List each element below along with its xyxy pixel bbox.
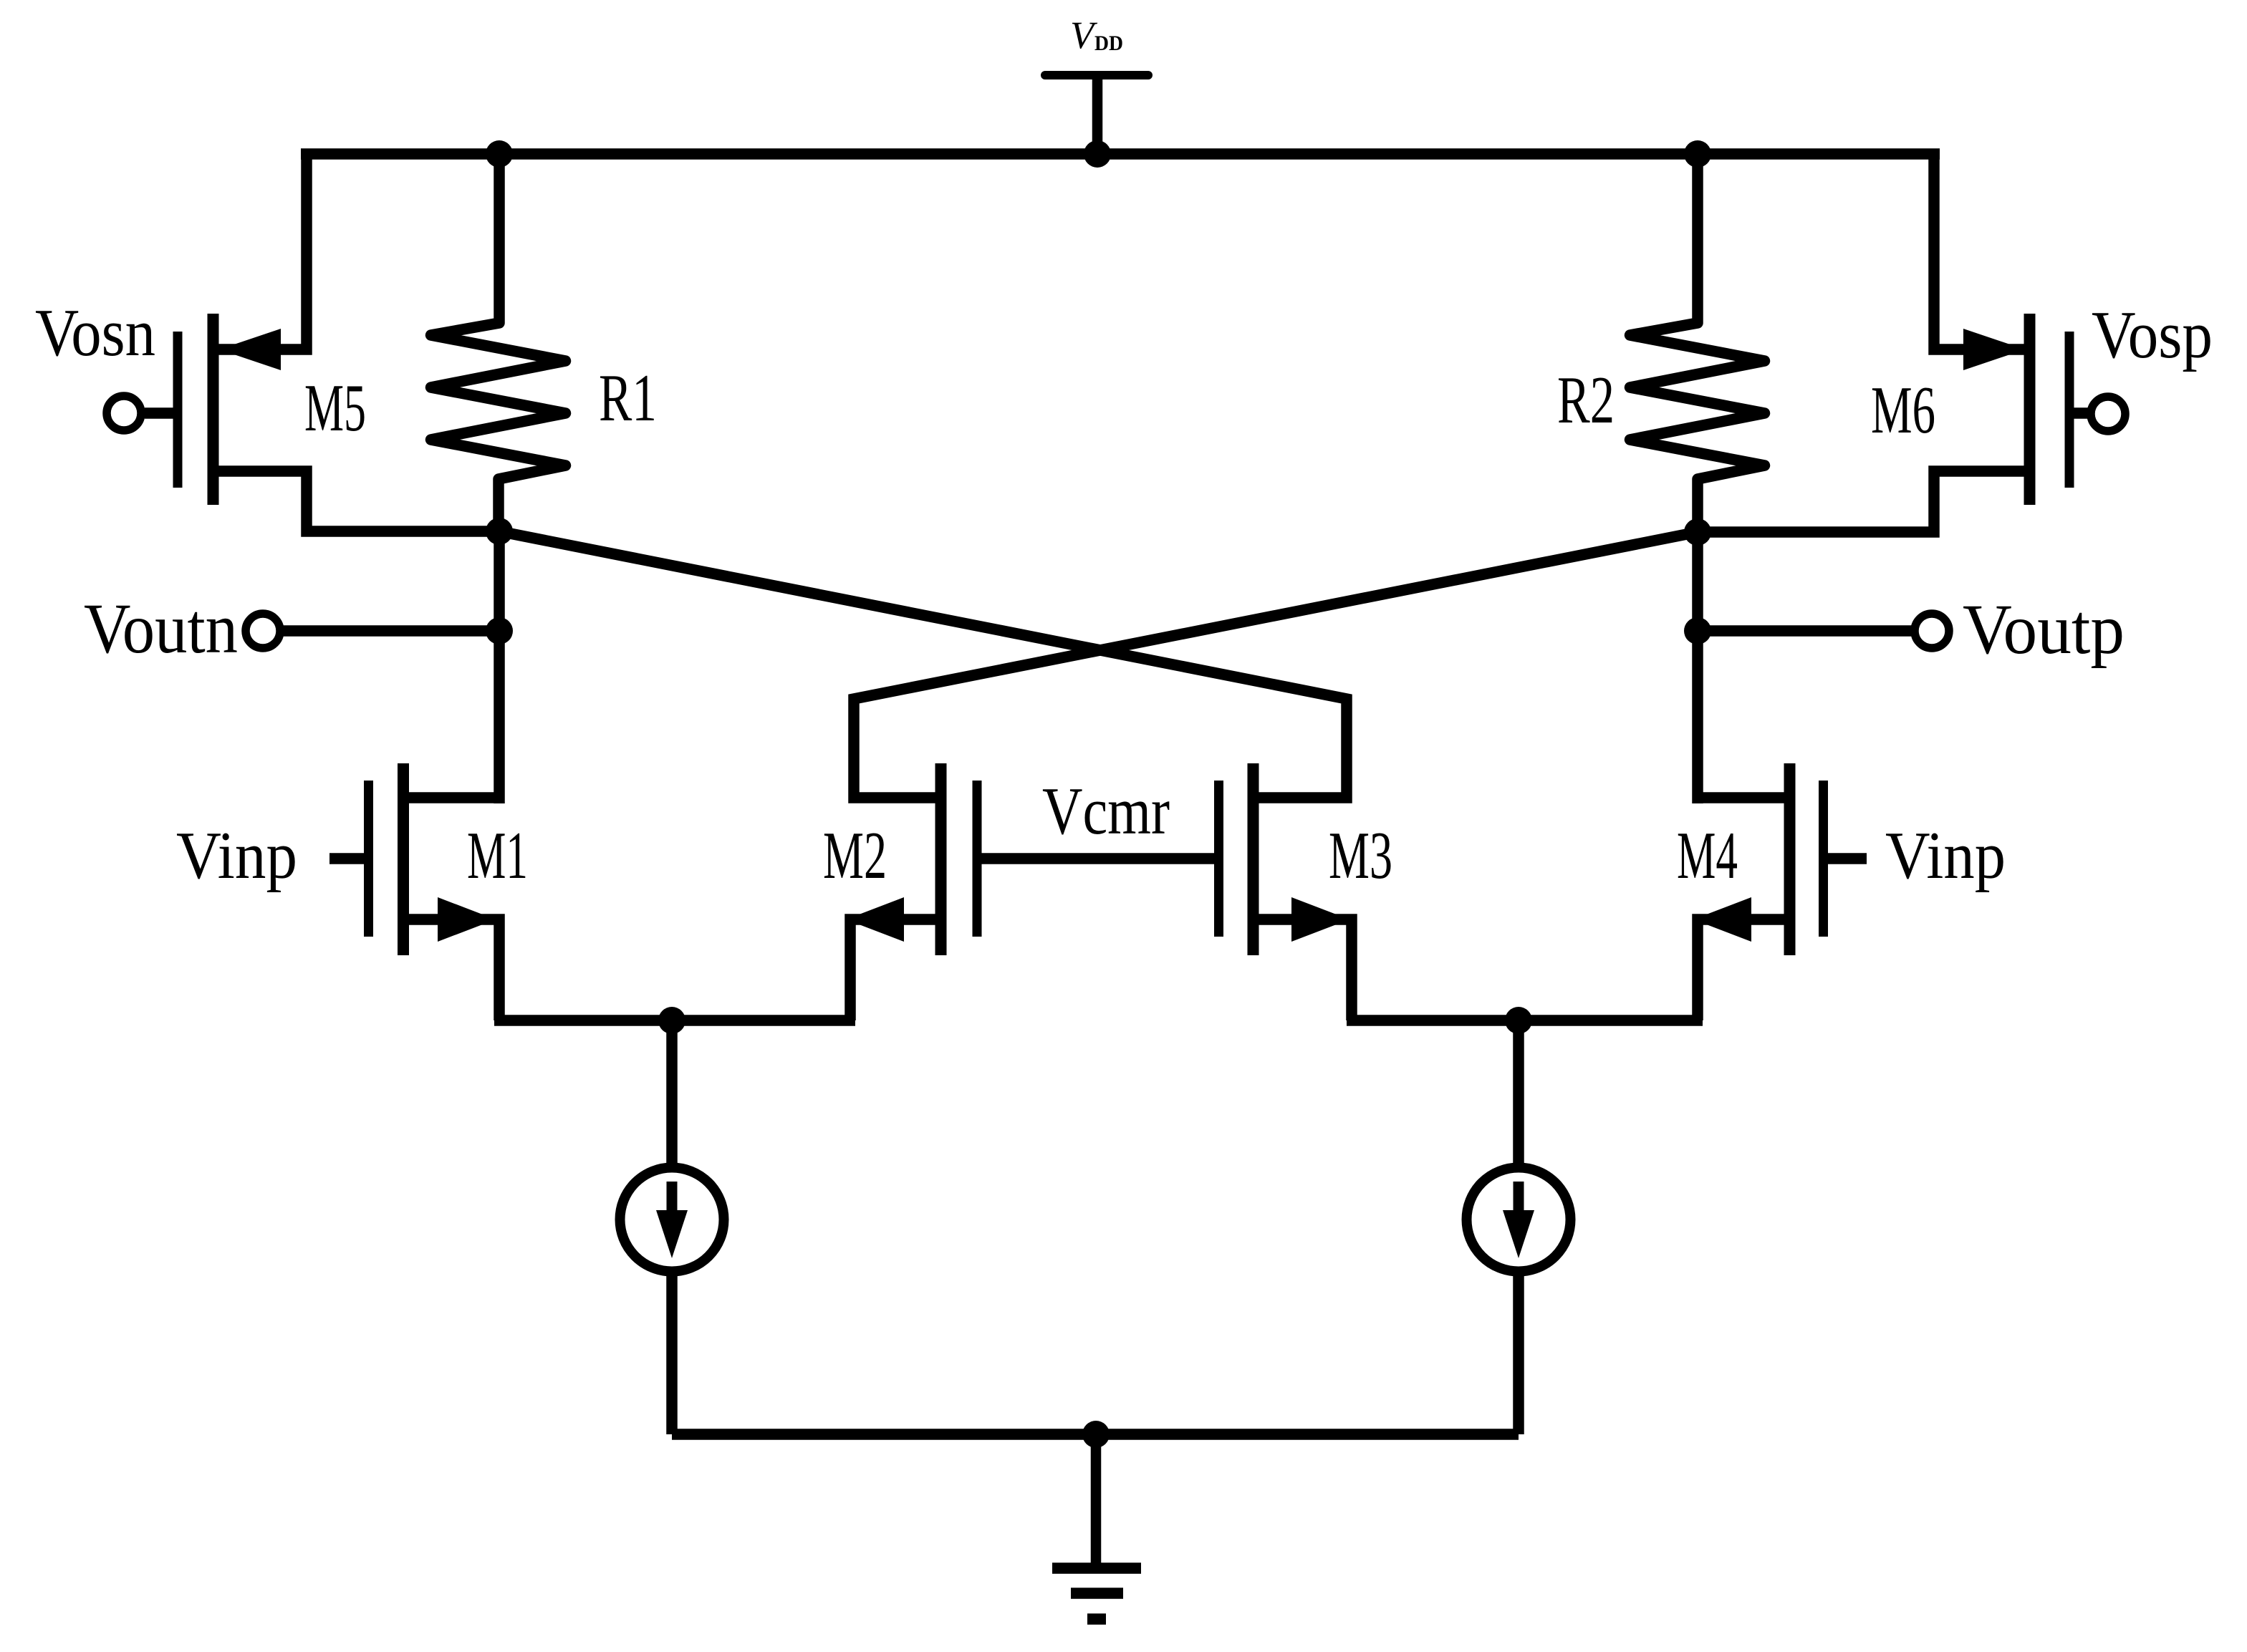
wire M5 source to rail [215, 154, 307, 349]
resistor R2 [1630, 154, 1765, 532]
current source I1 arrow head [656, 1210, 688, 1258]
ground bar 2 [1071, 1588, 1123, 1599]
wire VDD stem [1092, 75, 1103, 154]
transistor M3 gate bar [1214, 781, 1223, 937]
svg-text:M6: M6 [1871, 373, 1935, 448]
wire M1 drain lead [403, 792, 499, 803]
junction right tail [1505, 1007, 1532, 1034]
svg-text:Vcmr: Vcmr [1042, 774, 1170, 849]
wire right tail to I2 [1513, 1020, 1524, 1167]
ground bar 1 [1052, 1562, 1141, 1574]
transistor M3 channel bar [1248, 763, 1259, 955]
transistor M4 channel bar [1784, 763, 1796, 955]
ground bar 3 [1087, 1613, 1106, 1625]
wire M3 source lead [1255, 919, 1352, 1020]
svg-text:M1: M1 [467, 818, 528, 893]
current source I2 arrow head [1503, 1210, 1534, 1258]
junction Voutn [486, 617, 513, 644]
svg-text:DD: DD [1094, 32, 1123, 55]
transistor M2 source arrow [846, 897, 904, 942]
wire bottom rail [672, 1429, 1519, 1440]
wire M6 source to rail [1934, 154, 2028, 349]
wire M2 source lead [850, 919, 939, 1020]
transistor M4 source arrow [1693, 897, 1751, 942]
wire M1 gate stub [329, 853, 365, 864]
transistor M1 channel bar [398, 763, 409, 955]
terminal Voutp [1915, 614, 1949, 648]
wire I2 to bottom rail [1513, 1273, 1524, 1434]
current source I2 circle [1467, 1168, 1571, 1272]
transistor M6 gate bar [2065, 332, 2074, 488]
svg-text:Vinp: Vinp [1885, 818, 2006, 893]
node A junction [486, 518, 513, 545]
wire M6 drain to node B [1698, 471, 2028, 532]
wire Voutn lead [282, 625, 499, 637]
wire node B to M2 drain (diagonal) [854, 532, 1698, 798]
wire M5 drain to node A [215, 471, 499, 531]
transistor M3 source arrow [1291, 897, 1349, 942]
transistor M1 source arrow [438, 897, 496, 942]
svg-text:R2: R2 [1557, 363, 1615, 438]
junction rail-R2 [1684, 140, 1711, 168]
wire right tail [1347, 1015, 1703, 1026]
junction rail-R1 [486, 140, 513, 168]
wire node B down to M4 drain [1692, 532, 1703, 803]
svg-text:Vosp: Vosp [2092, 298, 2213, 372]
svg-text:Voutp: Voutp [1963, 589, 2125, 669]
transistor M2 channel bar [935, 763, 947, 955]
wire M4 gate stub [1827, 853, 1867, 864]
current source I2 arrow shaft [1514, 1182, 1524, 1213]
junction left tail [658, 1007, 685, 1034]
resistor R1 [431, 154, 566, 531]
wire left tail [494, 1015, 855, 1026]
terminal Voutn [246, 614, 280, 648]
wire I1 to bottom rail [666, 1273, 678, 1434]
transistor M6 channel bar [2024, 314, 2036, 505]
wire M4 drain lead [1698, 792, 1790, 803]
svg-text:Voutn: Voutn [84, 589, 238, 668]
junction Voutp [1684, 617, 1711, 644]
node B junction [1684, 518, 1711, 546]
current source I1 arrow shaft [667, 1182, 678, 1213]
transistor M5 gate bar [173, 332, 183, 488]
svg-text:Vinp: Vinp [176, 818, 297, 893]
wire M5 gate stub [145, 407, 175, 419]
wire M4 source lead [1698, 919, 1791, 1020]
terminal Vosp [2091, 397, 2125, 431]
junction rail-VDD [1084, 140, 1111, 168]
svg-text:M5: M5 [304, 371, 366, 445]
transistor M5 channel bar [208, 314, 219, 505]
svg-text:M2: M2 [823, 818, 887, 893]
wire M6 gate stub [2074, 407, 2089, 419]
wire ground stem [1091, 1434, 1102, 1563]
wire node A down to M1 drain [494, 531, 505, 803]
svg-text:R1: R1 [599, 361, 657, 435]
wire left tail to I1 [666, 1020, 678, 1167]
junction ground [1082, 1421, 1110, 1448]
transistor M2 gate bar [973, 781, 982, 937]
svg-text:Vosn: Vosn [35, 296, 155, 370]
wire M1 source lead [403, 919, 499, 1020]
wire top VDD rail [301, 148, 1940, 160]
wire node A to M3 drain (diagonal) [499, 531, 1347, 798]
terminal Vosn [107, 396, 141, 430]
current source I1 circle [620, 1168, 724, 1272]
transistor M6 source arrow [1963, 329, 2025, 370]
transistor M1 gate bar [364, 781, 373, 937]
svg-text:M3: M3 [1329, 818, 1392, 893]
svg-text:M4: M4 [1677, 818, 1738, 893]
transistor M5 source arrow [219, 329, 281, 370]
wire Vcmr between M2 M3 gates [978, 853, 1218, 864]
VDD supply bar [1045, 71, 1148, 79]
transistor M4 gate bar [1819, 781, 1828, 937]
wire Voutp lead [1698, 625, 1912, 637]
